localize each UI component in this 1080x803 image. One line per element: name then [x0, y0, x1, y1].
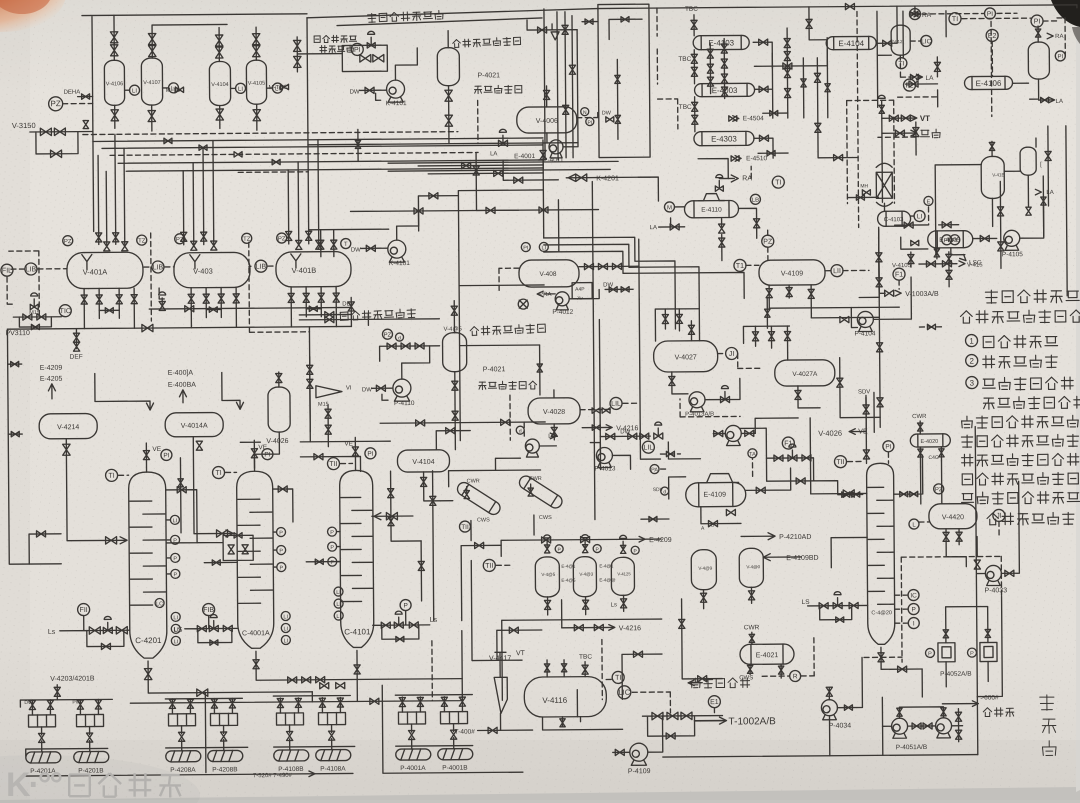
wire C-4101 side feed — [372, 515, 413, 517]
svg-text:PZ: PZ — [384, 333, 392, 339]
wire bus — [110, 152, 478, 155]
valve — [281, 84, 289, 89]
wire C-4101 bottom header — [130, 631, 463, 704]
svg-text:TII: TII — [329, 461, 337, 468]
svg-text:P-4021: P-4021 — [483, 366, 506, 373]
wire right vertical — [879, 229, 881, 427]
valve — [877, 398, 883, 407]
valve — [560, 719, 565, 727]
wire — [859, 296, 879, 298]
instrument E1 — [708, 696, 720, 708]
svg-text:P-4208A: P-4208A — [170, 767, 196, 774]
svg-text:P-4108A: P-4108A — [320, 766, 346, 773]
wire — [622, 654, 662, 699]
svg-text:TZ: TZ — [243, 237, 251, 243]
instrument P — [327, 527, 336, 536]
valve — [388, 489, 394, 498]
control valve — [833, 603, 842, 609]
svg-text:V-4104: V-4104 — [412, 459, 434, 466]
valve — [795, 390, 801, 399]
wire — [693, 15, 695, 36]
wire — [471, 560, 522, 660]
wire — [167, 539, 170, 541]
svg-text:E-4109BD: E-4109BD — [786, 555, 818, 562]
wire — [56, 685, 58, 700]
svg-text:E-4209: E-4209 — [649, 537, 672, 544]
wire valve columns — [710, 39, 724, 99]
valve — [621, 17, 629, 22]
control valve — [30, 304, 38, 309]
wire — [327, 405, 329, 447]
valve — [844, 705, 852, 710]
valve — [900, 491, 908, 496]
wire — [543, 200, 558, 252]
wire — [826, 50, 829, 118]
wire — [718, 353, 726, 355]
instrument LI — [334, 587, 343, 596]
label 气相入口公共线 — [453, 37, 521, 48]
valve — [698, 676, 707, 682]
arrow — [309, 771, 315, 777]
wire — [911, 215, 914, 217]
svg-text:PI: PI — [163, 452, 169, 459]
valve — [842, 492, 850, 497]
svg-text:E-4504: E-4504 — [743, 115, 764, 122]
vessel V-4027A — [775, 360, 835, 386]
valve — [325, 409, 331, 418]
svg-text:PZ: PZ — [763, 239, 773, 246]
svg-text:P-4001A: P-4001A — [400, 765, 426, 772]
wire — [509, 395, 511, 440]
instrument PI — [586, 118, 594, 126]
svg-text:FIB: FIB — [203, 607, 214, 614]
wire — [639, 299, 660, 459]
valve — [765, 309, 770, 317]
wire C-4001A bottom — [256, 650, 462, 681]
instrument TI — [213, 466, 225, 478]
valve — [814, 73, 820, 82]
wire — [910, 13, 919, 15]
wire — [915, 122, 917, 155]
wire — [881, 107, 884, 202]
pump P-4208B — [208, 750, 243, 761]
wire — [226, 471, 237, 473]
wire — [523, 420, 525, 436]
valve P-4208B discharge — [220, 732, 226, 741]
svg-text:P: P — [279, 548, 283, 554]
valve — [917, 423, 922, 431]
wire mid header — [351, 210, 599, 212]
arrow — [537, 291, 543, 297]
valve — [148, 34, 155, 45]
wire — [75, 329, 77, 349]
valve — [429, 193, 438, 199]
wire — [337, 546, 340, 548]
valve — [113, 233, 119, 242]
valve — [216, 109, 223, 120]
svg-text:PI: PI — [523, 245, 529, 251]
wire — [350, 297, 352, 326]
svg-text:PI: PI — [264, 452, 270, 459]
valve — [748, 591, 754, 600]
svg-text:V-4026: V-4026 — [266, 438, 288, 445]
valve — [81, 295, 87, 304]
valve — [955, 712, 961, 721]
pump unit P-4208A — [165, 699, 201, 774]
arrow — [48, 384, 55, 391]
wire — [478, 729, 533, 731]
wire — [372, 387, 392, 389]
wire — [501, 539, 661, 556]
instrument LI — [281, 635, 290, 644]
wire — [436, 431, 470, 450]
wire — [694, 97, 696, 132]
svg-text:V-4@9: V-4@9 — [698, 566, 712, 571]
exchanger — [740, 644, 794, 664]
wire — [809, 418, 812, 494]
wire — [990, 21, 993, 116]
control valve — [209, 625, 218, 631]
signature 金 — [1042, 719, 1056, 733]
wire — [395, 695, 472, 747]
exchanger — [684, 200, 738, 217]
wire — [882, 117, 916, 119]
valve — [669, 376, 675, 385]
wire bus — [102, 145, 543, 148]
wire — [632, 692, 670, 713]
svg-text:P-4012: P-4012 — [552, 309, 573, 316]
svg-text:Xv: Xv — [577, 296, 583, 302]
svg-text:TA: TA — [749, 452, 756, 458]
control valve — [159, 301, 165, 310]
wire — [495, 652, 506, 677]
instrument PZ — [63, 236, 73, 246]
valve P-4001A discharge — [408, 730, 414, 739]
svg-text:V-403: V-403 — [193, 267, 213, 276]
instrument PI — [365, 448, 376, 459]
wire drum B bottoms — [191, 287, 236, 327]
svg-text:E-4@1: E-4@1 — [561, 564, 576, 569]
svg-text:PA: PA — [651, 467, 658, 473]
wire — [851, 308, 857, 328]
valve — [143, 451, 149, 460]
svg-text:CWR: CWR — [467, 478, 480, 484]
wire — [906, 83, 938, 85]
vessel — [611, 557, 634, 595]
wire staircase 3 — [544, 250, 744, 300]
instrument PI — [262, 449, 273, 460]
valve — [191, 241, 197, 250]
wire — [879, 292, 885, 294]
strainer P-4208A — [168, 714, 195, 726]
svg-text:LIL: LIL — [643, 445, 653, 452]
svg-text:V-4105: V-4105 — [892, 263, 912, 269]
wire — [878, 227, 881, 293]
box P-4052B — [980, 642, 997, 661]
wire dashed — [9, 251, 40, 316]
control valve — [788, 455, 797, 461]
valve — [808, 289, 814, 298]
wire — [893, 455, 922, 494]
svg-text:LIB: LIB — [26, 266, 37, 273]
wire — [599, 320, 600, 470]
valve — [96, 295, 102, 304]
svg-text:PZ: PZ — [64, 239, 72, 245]
valve — [621, 287, 629, 292]
valve — [585, 19, 593, 24]
wire — [638, 177, 658, 201]
svg-text:Ls: Ls — [48, 629, 56, 636]
valve — [197, 689, 208, 696]
svg-text:LI: LI — [917, 213, 923, 220]
svg-text:CWR: CWR — [912, 414, 927, 420]
label 烧碱阻聚剂 — [479, 381, 537, 390]
wire — [763, 112, 788, 114]
svg-text:LI: LI — [283, 614, 288, 620]
wire — [883, 203, 885, 211]
valve — [774, 455, 783, 461]
svg-text:PI: PI — [1034, 18, 1041, 25]
svg-text:DW: DW — [362, 387, 372, 393]
vessel V-4006 — [517, 107, 577, 133]
svg-text:LB: LB — [752, 198, 759, 204]
instrument TI — [896, 58, 907, 69]
valve P-4108B discharge — [286, 731, 292, 740]
wire — [977, 573, 985, 575]
wire C-4420 feed bypass — [766, 457, 862, 495]
valve P-4208B suction A — [211, 699, 217, 708]
exchanger E-4110 hat — [698, 194, 724, 201]
signature 初 — [1040, 695, 1054, 710]
wire — [991, 41, 993, 76]
text 单体回收单元的主要 — [962, 415, 1080, 428]
valve — [594, 624, 603, 630]
valve — [40, 128, 51, 135]
wire — [766, 298, 768, 328]
exchanger E-4109 hat — [701, 473, 739, 482]
valve — [582, 600, 588, 609]
valve — [756, 487, 765, 493]
valve P-4201A discharge — [39, 733, 45, 742]
instrument P — [555, 545, 563, 553]
wire — [458, 190, 543, 251]
wire bus — [126, 168, 543, 171]
vessel V-4109 — [759, 260, 825, 286]
valve — [796, 478, 805, 484]
wire — [962, 18, 1059, 22]
valve — [628, 433, 637, 439]
pump P-4108A — [316, 749, 351, 760]
column C-4201 — [129, 472, 167, 658]
valve — [837, 378, 843, 387]
svg-text:V-3150: V-3150 — [12, 121, 36, 130]
svg-text:V-4@5: V-4@5 — [541, 572, 555, 577]
valve — [31, 324, 39, 329]
svg-text:V-4@0: V-4@0 — [746, 564, 760, 569]
instrument P — [925, 648, 934, 657]
svg-text:E: E — [927, 199, 931, 205]
valve — [974, 560, 980, 569]
wire — [459, 251, 460, 441]
wire — [499, 713, 501, 730]
wire — [273, 489, 293, 522]
valve — [759, 135, 768, 141]
pump P-4013 — [596, 447, 612, 467]
svg-text:P-4034: P-4034 — [829, 723, 852, 730]
valve — [387, 343, 396, 349]
wire — [143, 266, 174, 268]
svg-text:>600#: >600# — [980, 694, 999, 701]
valve — [662, 314, 668, 323]
valve — [692, 102, 698, 111]
valve — [212, 560, 220, 565]
instrument I — [908, 618, 919, 629]
svg-text:LI: LI — [173, 615, 178, 621]
exchanger E-4303 — [694, 131, 754, 145]
svg-text:V-4006: V-4006 — [536, 118, 558, 125]
svg-text:TI: TI — [615, 675, 621, 682]
instrument TI — [612, 671, 624, 683]
valve — [178, 479, 183, 487]
vessel — [1020, 147, 1036, 175]
control valve — [582, 545, 587, 553]
arrow — [1049, 97, 1055, 103]
vessel — [268, 387, 290, 432]
wire V-4026 down — [254, 432, 279, 468]
svg-text:PZ: PZ — [176, 237, 184, 243]
watermark K100 — [6, 766, 62, 803]
svg-text:T1: T1 — [736, 263, 744, 270]
svg-text:T-1002A/B: T-1002A/B — [728, 716, 776, 727]
instrument LI — [171, 624, 180, 633]
valve — [294, 56, 301, 67]
wire long bottom — [663, 755, 978, 757]
svg-text:T-400#: T-400# — [455, 729, 476, 736]
wire — [145, 443, 147, 472]
wire — [297, 37, 342, 72]
wire — [354, 437, 356, 470]
column C-4101 — [340, 470, 374, 647]
vessel V-403 — [174, 252, 250, 288]
instrument M — [664, 202, 674, 212]
valve — [692, 115, 698, 124]
instrument TII — [459, 521, 470, 532]
valve — [759, 86, 768, 92]
svg-text:P: P — [970, 651, 974, 657]
wire — [946, 557, 966, 567]
svg-text:P-4011: P-4011 — [543, 157, 564, 164]
valve — [606, 117, 614, 122]
wire — [798, 386, 820, 408]
valve — [849, 602, 858, 608]
valve — [836, 617, 844, 622]
valve — [386, 512, 397, 519]
valve — [414, 208, 423, 214]
svg-text:P: P — [173, 538, 177, 544]
control valve — [394, 622, 403, 628]
valve — [539, 207, 548, 213]
valve P-4108A suction B — [337, 698, 343, 707]
instrument JI — [726, 347, 738, 359]
svg-text:V-4125: V-4125 — [617, 571, 631, 576]
valve P-4201B suction B — [95, 700, 101, 709]
svg-text:P-4033: P-4033 — [984, 587, 1007, 594]
valve — [581, 537, 590, 543]
instrument TI — [909, 9, 920, 20]
label 火炬 — [920, 129, 940, 138]
wire — [1029, 26, 1039, 99]
wire C-4201 bottom — [148, 660, 312, 693]
wire — [738, 353, 760, 368]
svg-text:P: P — [330, 530, 334, 536]
instrument TI — [106, 469, 118, 481]
valve P-4001A suction B — [417, 697, 423, 706]
svg-text:M15: M15 — [318, 402, 329, 408]
instrument PZ — [175, 234, 185, 244]
svg-text:CWR: CWR — [744, 624, 760, 631]
valve — [806, 19, 812, 28]
valve — [561, 664, 566, 672]
valve — [691, 54, 697, 63]
exchanger — [910, 434, 950, 447]
svg-text:V-41B: V-41B — [992, 172, 1004, 177]
wire — [582, 426, 610, 428]
valve — [691, 67, 697, 76]
wire — [973, 237, 997, 239]
svg-text:RA: RA — [922, 12, 932, 19]
arrow — [849, 429, 855, 435]
svg-text:TII: TII — [836, 459, 844, 466]
valve — [234, 152, 242, 157]
valve — [104, 242, 110, 251]
control valve — [715, 186, 723, 191]
valve — [551, 427, 557, 436]
wire — [668, 442, 700, 459]
wire — [167, 519, 170, 521]
valve — [316, 240, 322, 249]
column C-4001A — [237, 471, 274, 648]
instrument TII — [483, 559, 495, 571]
valve — [336, 682, 345, 688]
valve — [401, 343, 410, 349]
svg-text:LI: LI — [541, 245, 546, 251]
wire — [878, 136, 916, 138]
instrument TI — [949, 13, 961, 25]
valve — [563, 105, 569, 114]
watermark 大数跨境 — [69, 773, 181, 797]
wire — [397, 211, 419, 240]
valve — [918, 449, 923, 457]
text 合降低橡胶性能 — [987, 512, 1074, 525]
svg-text:P: P — [330, 560, 334, 566]
valve — [904, 222, 913, 228]
svg-text:C-4001A: C-4001A — [242, 630, 270, 637]
wire — [895, 594, 908, 596]
wire long right vertical — [975, 427, 978, 755]
instrument PZ — [934, 484, 944, 494]
arrow — [1035, 189, 1041, 195]
instrument PI — [351, 43, 363, 55]
wire — [946, 606, 988, 642]
svg-text:P-4051A/B: P-4051A/B — [896, 744, 927, 751]
wire — [300, 440, 390, 443]
wire — [976, 537, 978, 557]
valve — [714, 430, 723, 436]
arrow — [916, 74, 922, 80]
instrument LI — [168, 83, 178, 93]
svg-text:V-4106: V-4106 — [106, 81, 123, 87]
valve — [203, 294, 209, 303]
